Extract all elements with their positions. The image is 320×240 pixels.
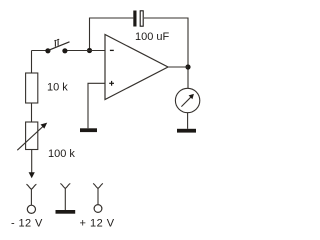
svg-text:100 uF: 100 uF (135, 31, 170, 43)
wire below variable resistor with plug arrow (29, 150, 35, 179)
terminal jack J1 -12V (26, 184, 36, 213)
capacitor C1 100 uF (133, 11, 143, 27)
wire non-inverting input to ground (88, 83, 105, 128)
resistor R2 100 k variable (17, 122, 47, 150)
node output junction (185, 64, 190, 69)
svg-text:10 k: 10 k (47, 82, 68, 94)
resistor R1 10 k (26, 73, 38, 103)
wire top feedback right segment (144, 18, 188, 88)
wire switch to op-amp (65, 50, 105, 52)
node inverting input junction (87, 48, 92, 53)
wire input left segment (32, 50, 48, 52)
svg-text:+ 12 V: + 12 V (80, 218, 115, 230)
ground at jack J2 (56, 210, 76, 214)
wire left vertical upper (31, 51, 33, 74)
wire op-amp output (168, 66, 188, 68)
wire top feedback left segment (90, 18, 134, 51)
meter M1 (175, 88, 199, 112)
svg-text:- 12 V: - 12 V (11, 218, 43, 230)
svg-text:100 k: 100 k (48, 148, 75, 160)
ground at op-amp + (80, 128, 97, 132)
op-amp U1 (105, 35, 168, 100)
wire meter to ground (187, 113, 189, 129)
terminal jack J3 +12V (93, 184, 103, 213)
wire between resistors (31, 103, 33, 122)
terminal jack J2 ground (60, 184, 70, 211)
switch S1 (45, 39, 69, 53)
ground at meter (177, 129, 196, 133)
